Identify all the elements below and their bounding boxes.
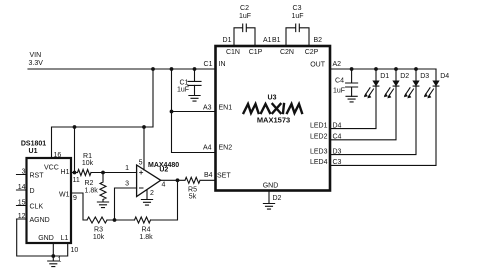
svg-text:D1: D1 (380, 73, 389, 80)
svg-text:U3: U3 (268, 95, 277, 102)
svg-text:C4: C4 (333, 134, 342, 141)
svg-text:D2: D2 (273, 195, 282, 202)
svg-text:1.8k: 1.8k (139, 234, 153, 241)
svg-text:IN: IN (219, 61, 226, 68)
svg-text:C1N: C1N (226, 49, 240, 56)
svg-text:H1: H1 (61, 169, 70, 176)
svg-text:EN1: EN1 (219, 105, 233, 112)
svg-text:C3: C3 (293, 5, 302, 12)
svg-text:GND: GND (263, 183, 279, 190)
svg-text:12: 12 (18, 213, 26, 220)
svg-text:14: 14 (18, 184, 26, 191)
svg-text:R2: R2 (85, 180, 94, 187)
svg-text:2: 2 (150, 190, 154, 197)
svg-text:D4: D4 (333, 122, 342, 129)
svg-text:CLK: CLK (30, 204, 44, 211)
svg-text:C1: C1 (204, 61, 213, 68)
svg-text:1uF: 1uF (239, 13, 251, 20)
svg-text:15: 15 (18, 200, 26, 207)
svg-text:GND: GND (38, 235, 54, 242)
svg-text:3.3V: 3.3V (29, 60, 44, 67)
svg-text:R3: R3 (94, 227, 103, 234)
svg-text:LED2: LED2 (310, 134, 328, 141)
svg-text:SET: SET (217, 173, 231, 180)
svg-text:1uF: 1uF (177, 87, 189, 94)
svg-text:D2: D2 (400, 73, 409, 80)
svg-text:RST: RST (30, 173, 45, 180)
svg-text:5: 5 (139, 160, 143, 167)
svg-text:LED3: LED3 (310, 148, 328, 155)
svg-text:9: 9 (73, 195, 77, 202)
svg-text:C2: C2 (240, 5, 249, 12)
svg-text:1: 1 (58, 257, 62, 264)
svg-text:3: 3 (125, 181, 129, 188)
svg-text:W1: W1 (59, 192, 70, 199)
svg-text:A4: A4 (203, 145, 212, 152)
svg-text:AGND: AGND (30, 217, 50, 224)
svg-text:C1: C1 (180, 79, 189, 86)
svg-text:R5: R5 (188, 187, 197, 194)
svg-text:A3: A3 (203, 105, 212, 112)
svg-text:11: 11 (73, 177, 80, 184)
svg-text:A2: A2 (333, 61, 342, 68)
svg-text:10: 10 (71, 247, 79, 254)
svg-text:4: 4 (162, 182, 166, 189)
svg-text:5k: 5k (189, 194, 197, 201)
svg-text:1uF: 1uF (333, 87, 345, 94)
svg-text:D: D (30, 188, 35, 195)
svg-text:3: 3 (22, 169, 26, 176)
svg-text:VCC: VCC (44, 165, 59, 172)
svg-text:C1P: C1P (249, 49, 263, 56)
svg-text:D3: D3 (420, 73, 429, 80)
svg-text:D1: D1 (223, 37, 232, 44)
svg-text:LED1: LED1 (310, 122, 328, 129)
svg-text:C4: C4 (335, 78, 344, 85)
svg-text:R4: R4 (142, 227, 151, 234)
svg-text:D4: D4 (440, 73, 449, 80)
svg-text:U2: U2 (159, 167, 168, 174)
svg-text:1uF: 1uF (291, 13, 303, 20)
svg-text:B4: B4 (204, 172, 213, 179)
svg-text:10k: 10k (82, 160, 94, 167)
svg-text:1.8k: 1.8k (85, 188, 99, 195)
svg-text:R1: R1 (83, 153, 92, 160)
svg-text:L1: L1 (61, 235, 69, 242)
svg-text:10k: 10k (93, 234, 105, 241)
svg-text:U1: U1 (29, 148, 38, 155)
svg-text:C3: C3 (333, 159, 342, 166)
svg-text:16: 16 (54, 152, 62, 159)
svg-text:DS1801: DS1801 (21, 141, 46, 148)
svg-text:D3: D3 (333, 148, 342, 155)
svg-text:B2: B2 (314, 37, 323, 44)
svg-text:A1: A1 (263, 37, 272, 44)
svg-text:1: 1 (125, 165, 129, 172)
svg-text:OUT: OUT (310, 62, 326, 69)
svg-text:C2N: C2N (280, 49, 294, 56)
svg-text:MAX1573: MAX1573 (257, 116, 290, 125)
svg-text:LED4: LED4 (310, 159, 328, 166)
svg-text:EN2: EN2 (219, 145, 233, 152)
svg-text:C2P: C2P (305, 49, 319, 56)
svg-text:VIN: VIN (30, 52, 42, 59)
svg-text:B1: B1 (272, 37, 281, 44)
